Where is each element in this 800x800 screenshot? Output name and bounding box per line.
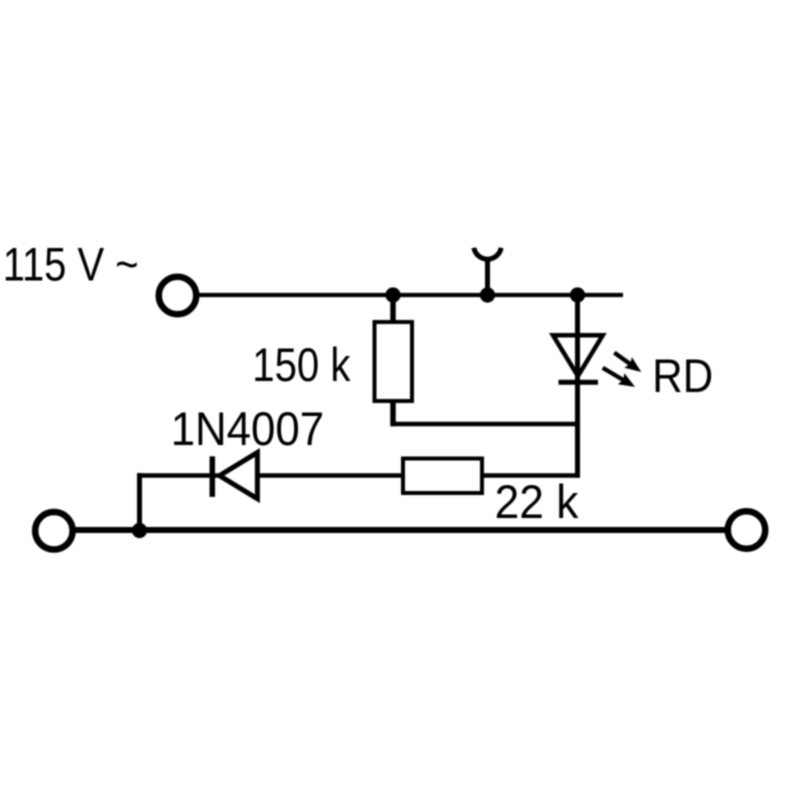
svg-text:1N4007: 1N4007: [171, 402, 324, 455]
svg-text:115 V ~: 115 V ~: [3, 240, 139, 292]
svg-text:RD: RD: [652, 351, 713, 403]
svg-text:150 k: 150 k: [252, 339, 350, 392]
svg-text:22 k: 22 k: [495, 476, 579, 528]
